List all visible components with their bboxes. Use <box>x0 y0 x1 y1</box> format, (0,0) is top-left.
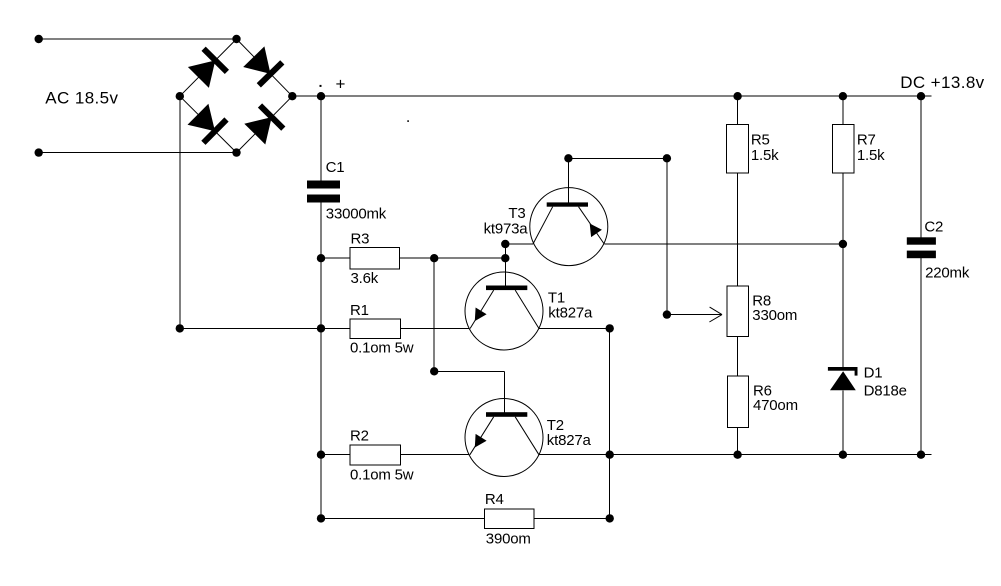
svg-text:R7: R7 <box>857 131 876 148</box>
node T3 emitter R7 column <box>839 240 847 248</box>
node T3 collector <box>564 154 572 162</box>
zener D1 value <box>864 383 907 400</box>
svg-text:0.1om 5w: 0.1om 5w <box>350 340 414 357</box>
transistor T3 label <box>508 205 525 222</box>
wire R4 row left <box>321 517 484 519</box>
resistor R2 <box>350 445 401 465</box>
svg-text:AC 18.5v: AC 18.5v <box>45 88 118 107</box>
svg-text:470om: 470om <box>753 397 798 414</box>
svg-text:3.6k: 3.6k <box>351 270 379 287</box>
resistor R6 value <box>753 397 798 414</box>
wire T3 base vertical link <box>504 244 506 258</box>
resistor R3 label <box>351 231 370 248</box>
wire R6 bottom lead <box>737 428 739 455</box>
wire T2 base lead vertical <box>504 371 506 412</box>
wire bridge edge top-right <box>237 39 293 96</box>
transistor T1 <box>465 272 543 350</box>
svg-text:D818e: D818e <box>864 383 907 400</box>
svg-text:330om: 330om <box>752 307 797 324</box>
wire AC bottom <box>39 152 237 154</box>
resistor R5 label <box>751 131 770 148</box>
wire R1 to T1 <box>401 327 470 329</box>
zener D1 label <box>864 364 883 381</box>
node bridge top <box>232 35 240 43</box>
svg-text:R2: R2 <box>350 428 369 445</box>
wire bottom rail <box>539 454 932 456</box>
wire bridge edge left-top <box>180 39 237 96</box>
node bottom rail C2 <box>917 451 925 459</box>
resistor R5 <box>727 124 749 172</box>
transistor T2 <box>465 399 543 477</box>
svg-text:D1: D1 <box>864 364 883 381</box>
wire R2 to T2 <box>401 454 470 456</box>
resistor R3 <box>350 248 400 270</box>
node jumper left <box>430 367 438 375</box>
node AC terminal bottom <box>35 148 43 156</box>
potentiometer R8 <box>727 286 748 336</box>
wiper arrowhead upper <box>710 307 722 315</box>
svg-text:33000mk: 33000mk <box>326 205 387 222</box>
wire minus to R1 row <box>180 327 350 329</box>
wire T3 collector row <box>568 157 667 159</box>
node left corner R1 row <box>176 324 184 332</box>
wire main left vertical upper <box>320 96 322 180</box>
wiper arrowhead lower <box>709 315 722 322</box>
resistor R7 label <box>857 131 876 148</box>
node bottom rail R6 <box>733 451 741 459</box>
svg-text:+: + <box>336 75 346 94</box>
wire AC top <box>39 38 237 40</box>
node wiper corner <box>663 310 671 318</box>
resistor R1 <box>350 319 401 339</box>
wire C2 top lead <box>920 96 922 237</box>
svg-text:DC +13.8v: DC +13.8v <box>900 73 984 92</box>
svg-text:R5: R5 <box>751 131 770 148</box>
resistor R1 value <box>350 340 414 357</box>
svg-text:R3: R3 <box>351 231 370 248</box>
svg-text:0.1om 5w: 0.1om 5w <box>350 467 414 484</box>
wire R4 row right <box>534 517 610 519</box>
diode bridge D-bottomright <box>244 106 283 145</box>
diode bridge D-topleft <box>188 49 227 88</box>
svg-text:390om: 390om <box>486 531 531 548</box>
resistor R2 label <box>350 428 369 445</box>
svg-text:220mk: 220mk <box>925 265 970 282</box>
node R2 left <box>317 451 325 459</box>
potentiometer R8 value <box>752 307 797 324</box>
svg-text:T3: T3 <box>508 205 525 222</box>
node bottom rail D1 <box>839 451 847 459</box>
wire T3 collector lead <box>567 158 569 202</box>
diode bridge D-bottomleft <box>188 104 227 143</box>
capacitor C2 value <box>925 265 970 282</box>
node plus sign <box>336 75 346 94</box>
zener diode D1 <box>828 367 858 390</box>
wire R5 top lead <box>737 96 739 124</box>
node T2 right <box>606 451 614 459</box>
node AC terminal top <box>35 35 43 43</box>
resistor R3 value <box>351 270 379 287</box>
wire bridge edge left-bottom <box>180 96 237 152</box>
wire R8 to R6 <box>737 336 739 376</box>
svg-text:kt827a: kt827a <box>548 304 593 321</box>
node T3 base <box>501 240 509 248</box>
wire R7 to D1 <box>842 173 844 367</box>
transistor T3 type <box>484 220 529 237</box>
wire bridge edge bottom-right <box>237 96 293 152</box>
node bridge bottom <box>232 148 240 156</box>
wire R3 node vertical <box>433 258 435 371</box>
node bottom left corner <box>317 514 325 522</box>
svg-text:1.5k: 1.5k <box>751 147 779 164</box>
svg-text:kt973a: kt973a <box>484 220 529 237</box>
capacitor C2 label <box>924 218 943 235</box>
resistor R4 label <box>485 491 504 508</box>
resistor R4 value <box>486 531 531 548</box>
wire T1 right <box>539 327 610 329</box>
wire T1 top lead <box>504 258 506 285</box>
wire R3 right <box>400 257 506 259</box>
node DC label <box>900 73 984 92</box>
node DC output <box>917 92 925 100</box>
wire R8 wiper arrow line <box>667 314 722 316</box>
transistor T2 label <box>547 417 564 434</box>
node R1 left <box>317 324 325 332</box>
wire T3 emitter row <box>604 243 843 245</box>
svg-text:C2: C2 <box>924 218 943 235</box>
wire R5 to R8 <box>737 173 739 286</box>
wire right vertical x610 <box>609 328 611 518</box>
wire right mid vertical <box>666 158 668 314</box>
transistor T1 label <box>548 290 565 307</box>
resistor R2 value <box>350 467 414 484</box>
wire left drop from bridge minus <box>179 96 181 328</box>
svg-text:kt827a: kt827a <box>547 432 592 449</box>
node plus rail C1 <box>317 92 325 100</box>
svg-text:R1: R1 <box>350 302 369 319</box>
resistor R4 <box>484 509 534 529</box>
transistor T2 type <box>547 432 592 449</box>
resistor R7 <box>833 124 855 172</box>
svg-text:1.5k: 1.5k <box>857 147 885 164</box>
wire T3 base horizontal <box>505 243 533 245</box>
node R3 left <box>317 254 325 262</box>
capacitor C1 value <box>326 205 387 222</box>
wire main left vertical lower <box>320 203 322 519</box>
svg-text:C1: C1 <box>326 159 345 176</box>
wire D1 bottom lead <box>842 390 844 454</box>
resistor R1 label <box>350 302 369 319</box>
capacitor C1 label <box>326 159 345 176</box>
node R7 top <box>839 92 847 100</box>
node T1 top <box>501 254 509 262</box>
stray period mark <box>320 85 322 87</box>
node bridge left <box>176 92 184 100</box>
transistor T3 <box>530 188 608 266</box>
resistor R7 value <box>857 147 885 164</box>
node R5 top <box>733 92 741 100</box>
stray dot mark <box>407 120 409 122</box>
resistor R6 label <box>753 382 772 399</box>
capacitor C1 <box>307 181 340 203</box>
wire C2 bottom lead <box>920 258 922 455</box>
wire R7 top lead <box>842 96 844 124</box>
wire jumper to T2 horizontal <box>434 370 505 372</box>
node corner x667 top <box>663 154 671 162</box>
svg-text:R4: R4 <box>485 491 504 508</box>
wire R3 left <box>321 257 350 259</box>
node AC label <box>45 88 118 107</box>
potentiometer R8 label <box>752 292 771 309</box>
resistor R6 <box>728 376 749 428</box>
node R4 right <box>606 514 614 522</box>
wire R2 left <box>321 454 350 456</box>
node bridge right <box>288 92 296 100</box>
diode bridge D-topright <box>243 46 282 85</box>
capacitor C2 <box>907 237 936 258</box>
node R3 right <box>430 254 438 262</box>
node T1 right <box>606 324 614 332</box>
resistor R5 value <box>751 147 779 164</box>
transistor T1 type <box>548 304 593 321</box>
wire + rail top <box>292 95 931 97</box>
